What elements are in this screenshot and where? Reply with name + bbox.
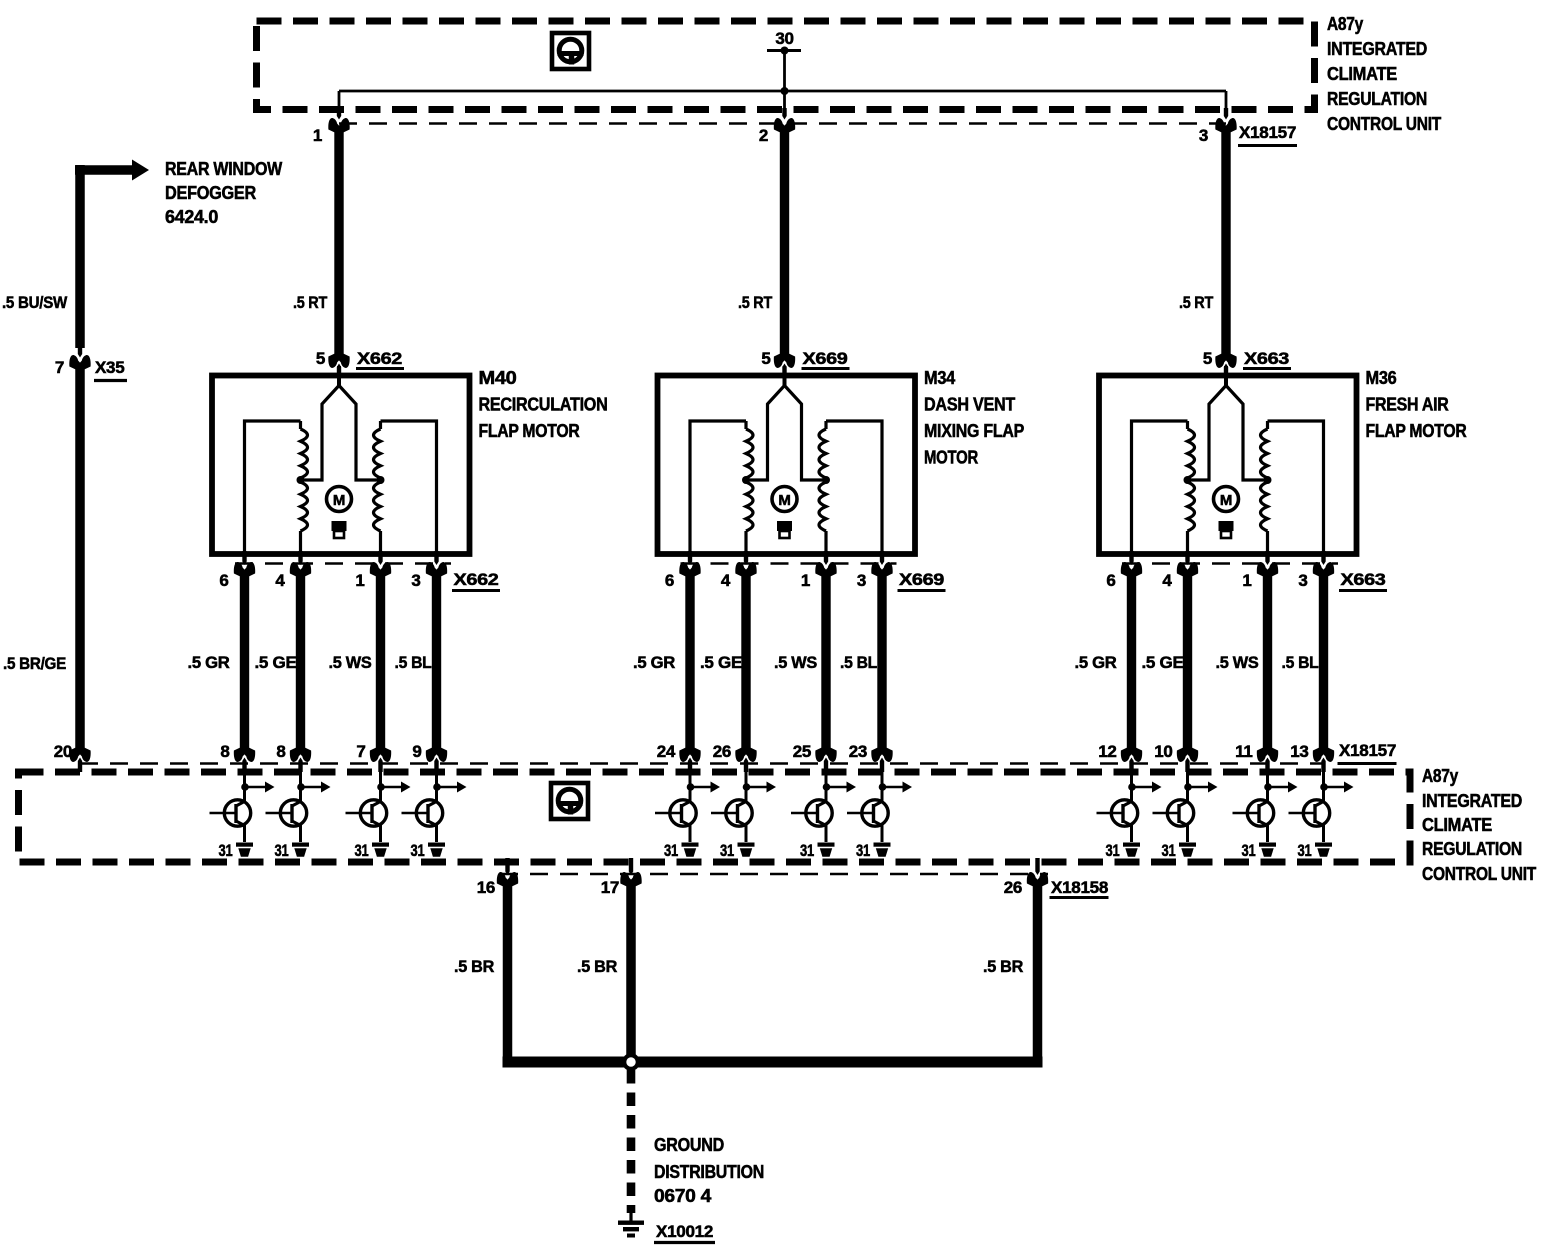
connector X663 pin 6 female claw [1121, 562, 1142, 576]
svg-text:4: 4 [275, 571, 285, 590]
connector X18157 pin 3 male pin [1224, 108, 1228, 120]
svg-text:6: 6 [1106, 571, 1115, 590]
control unit A87y (lower) dashed outline [19, 772, 1411, 862]
svg-text:24: 24 [657, 742, 676, 761]
connector X35 male pin [78, 344, 82, 358]
ground 31 (pin 7) [372, 843, 389, 857]
svg-text:.5 GR: .5 GR [188, 653, 230, 672]
connector control-unit pin 23 male pin [880, 758, 884, 773]
connector X669 pin 5 female claw [774, 354, 795, 368]
svg-text:4: 4 [721, 571, 731, 590]
connector control-unit pin 23 female claw [871, 748, 892, 762]
wire internal drop pin 8 [243, 764, 246, 803]
transistor driver pin 24 [655, 800, 696, 826]
wire internal tent right [339, 386, 381, 481]
svg-text:X18157: X18157 [1239, 123, 1296, 142]
wire .5 WS (X669 pin) [821, 570, 830, 754]
svg-text:M: M [1220, 492, 1232, 509]
svg-text:X662: X662 [454, 570, 499, 589]
wire .5 GR (X663 pin) [1127, 570, 1136, 754]
svg-text:REGULATION: REGULATION [1327, 89, 1427, 109]
svg-text:M: M [778, 492, 790, 509]
svg-text:.5 BL: .5 BL [1282, 653, 1319, 672]
wire .5 GE (X663 pin) [1183, 570, 1192, 754]
svg-text:X18157: X18157 [1339, 741, 1396, 760]
connector X18157 pin 2 female claw [774, 118, 795, 132]
wire internal drop pin 7 [379, 764, 382, 803]
ground 31 (pin 13) [1315, 843, 1332, 857]
wire .5 GE (X662 pin) [296, 570, 305, 754]
svg-text:23: 23 [849, 742, 867, 761]
svg-text:0670 4: 0670 4 [654, 1186, 711, 1206]
svg-text:.5 GE: .5 GE [1142, 653, 1184, 672]
connector X663 pin 1 female claw [1257, 562, 1278, 576]
connector X663 pin 3 female claw [1313, 562, 1334, 576]
svg-text:3: 3 [1298, 571, 1307, 590]
motor symbol M (M34) [772, 487, 797, 512]
svg-text:.5 WS: .5 WS [1216, 653, 1259, 672]
ground 31 (pin 12) [1123, 843, 1140, 857]
arrowhead to rear window defogger [132, 160, 149, 181]
coil winding right lower (M40) [374, 482, 381, 531]
svg-text:M34: M34 [924, 368, 955, 388]
svg-text:31: 31 [1162, 841, 1176, 860]
motor symbol M (M36) [1214, 487, 1239, 512]
svg-text:16: 16 [477, 878, 495, 897]
svg-text:.5 BU/SW: .5 BU/SW [2, 293, 68, 312]
connector control-unit pin 9 male pin [434, 758, 438, 773]
svg-text:CONTROL UNIT: CONTROL UNIT [1422, 864, 1536, 884]
connector X669 pin 6 female claw [679, 562, 700, 576]
wire internal drop pin 9 [435, 764, 438, 803]
junction pin 13 branch [1320, 783, 1328, 791]
svg-text:.5 BR: .5 BR [454, 957, 494, 976]
junction pin 8 branch [241, 783, 249, 791]
transistor driver pin 12 [1097, 800, 1138, 826]
connector control-unit pin 24 female claw [679, 748, 700, 762]
ground 31 (pin 23) [874, 843, 891, 857]
junction pin 24 branch [687, 783, 695, 791]
ground 31 (pin 24) [682, 843, 699, 857]
svg-text:CLIMATE: CLIMATE [1422, 815, 1492, 835]
wire .5 RT [780, 126, 789, 359]
svg-text:A87y: A87y [1422, 766, 1458, 786]
svg-text:A87y: A87y [1327, 14, 1363, 34]
connector X18158 pin 16 female claw [497, 872, 518, 886]
signal branch arrow pin 11 [1268, 786, 1289, 789]
svg-text:CONTROL UNIT: CONTROL UNIT [1327, 114, 1441, 134]
connector control-unit pin 13 male pin [1321, 758, 1325, 773]
transistor driver pin 7 [346, 800, 387, 826]
wire .5 RT [1221, 126, 1230, 359]
svg-text:12: 12 [1098, 742, 1116, 761]
connector control-unit pin 13 female claw [1313, 748, 1334, 762]
svg-text:6424.0: 6424.0 [165, 207, 218, 227]
connector X18158 pin 17 male pin [629, 858, 633, 875]
node junction 30-bus [781, 87, 789, 95]
svg-text:MOTOR: MOTOR [924, 448, 978, 468]
wire internal drop pin 12 [1130, 764, 1133, 803]
svg-text:.5 RT: .5 RT [738, 293, 773, 312]
junction ground bus / distribution (open circle) [624, 1055, 638, 1069]
ground 31 (pin 10) [1179, 843, 1196, 857]
wire .5 WS (X662 pin) [376, 570, 385, 754]
svg-text:17: 17 [601, 878, 619, 897]
svg-text:X18158: X18158 [1051, 878, 1108, 897]
wire bus drop pin1 [338, 91, 341, 111]
svg-text:.5 GR: .5 GR [1075, 653, 1117, 672]
wire .5 BR pin 17 [626, 880, 636, 1062]
transistor driver pin 8 [210, 800, 251, 826]
svg-text:CLIMATE: CLIMATE [1327, 64, 1397, 84]
ground 31 (pin 25) [818, 843, 835, 857]
svg-text:31: 31 [411, 841, 425, 860]
svg-text:9: 9 [412, 742, 421, 761]
wire .5 BR pin 16 [503, 880, 513, 1062]
junction pin 25 branch [823, 783, 831, 791]
svg-text:8: 8 [220, 742, 229, 761]
svg-text:DASH VENT: DASH VENT [924, 395, 1015, 415]
connector row dashed line (lower box top) [80, 762, 1324, 765]
wire .5 GR (X669 pin) [685, 570, 694, 754]
connector control-unit pin 8 female claw [234, 748, 255, 762]
svg-text:X10012: X10012 [656, 1222, 713, 1241]
ground bus wire (horizontal) [503, 1057, 1043, 1068]
motor symbol M (M40) [327, 487, 352, 512]
wire .5 BL (X663 pin) [1319, 570, 1328, 754]
wire .5 BL (X669 pin) [877, 570, 886, 754]
svg-text:M36: M36 [1366, 368, 1397, 388]
coil winding right upper (M40) [379, 421, 382, 429]
svg-text:X663: X663 [1244, 349, 1289, 368]
wire internal tent left [746, 386, 785, 481]
wire .5 BR pin 26 [1033, 880, 1043, 1062]
connector X18157 dashed line [339, 122, 1226, 125]
wire internal tent right [1226, 386, 1268, 481]
connector X663 pin 5 female claw [1215, 354, 1236, 368]
svg-text:26: 26 [1004, 878, 1022, 897]
svg-text:26: 26 [713, 742, 731, 761]
svg-text:2: 2 [759, 126, 768, 145]
signal branch arrow pin 25 [826, 786, 847, 789]
svg-text:31: 31 [1298, 841, 1312, 860]
svg-text:7: 7 [356, 742, 365, 761]
wire internal pin3 branch [1268, 421, 1324, 553]
coil winding left upper (M36) [1186, 421, 1189, 429]
svg-text:.5 GE: .5 GE [700, 653, 742, 672]
junction pin 7 branch [377, 783, 385, 791]
signal branch arrow pin 9 [437, 786, 458, 789]
connector X662 pin 6 female claw [234, 562, 255, 576]
ground 31 (pin 11) [1259, 843, 1276, 857]
connector X669 pin 3 female claw [871, 562, 892, 576]
svg-text:25: 25 [793, 742, 811, 761]
svg-text:13: 13 [1290, 742, 1308, 761]
svg-text:31: 31 [664, 841, 678, 860]
wire .5 WS (X663 pin) [1263, 570, 1272, 754]
svg-text:.5 BR/GE: .5 BR/GE [3, 654, 66, 673]
svg-text:.5 BL: .5 BL [840, 653, 877, 672]
signal branch arrow pin 24 [690, 786, 711, 789]
signal branch arrow pin 13 [1324, 786, 1345, 789]
svg-text:31: 31 [800, 841, 814, 860]
wire .5 BU/SW vertical [75, 165, 85, 348]
signal branch arrow pin 8 [245, 786, 266, 789]
signal branch arrow pin 23 [882, 786, 903, 789]
wire to ground distribution (dashed) [627, 1070, 636, 1213]
junction left coil tap [1184, 476, 1192, 484]
coil winding right upper (M36) [1266, 421, 1269, 429]
wire pin4 lower stub [299, 531, 302, 553]
ground 31 (pin 9) [428, 843, 445, 857]
svg-text:INTEGRATED: INTEGRATED [1327, 39, 1427, 59]
connector X669 pin 4 male pin [744, 551, 748, 565]
svg-text:5: 5 [761, 349, 770, 368]
junction pin 23 branch [879, 783, 887, 791]
connector control-unit pin 26 female claw [735, 748, 756, 762]
svg-text:1: 1 [1242, 571, 1251, 590]
wire internal tent left [1188, 386, 1227, 481]
wire pin4 lower stub [1186, 531, 1189, 553]
connector X669 (bottom) dashed line [681, 562, 897, 565]
coil winding left upper (M34) [744, 421, 747, 429]
svg-text:7: 7 [55, 358, 64, 377]
svg-text:M: M [333, 492, 345, 509]
wire .5 GR (X662 pin) [240, 570, 249, 754]
svg-text:.5 GR: .5 GR [633, 653, 675, 672]
wire .5 BL (X662 pin) [432, 570, 441, 754]
svg-text:FLAP MOTOR: FLAP MOTOR [479, 421, 580, 441]
signal branch arrow pin 8 [301, 786, 322, 789]
motor M40 box outline [212, 376, 470, 555]
connector control-unit pin 7 male pin [378, 758, 382, 773]
connector X663 pin 6 male pin [1129, 551, 1133, 565]
coil winding left lower (M34) [746, 482, 753, 531]
connector control-unit pin 11 male pin [1265, 758, 1269, 773]
connector X662 pin 1 female claw [370, 562, 391, 576]
svg-text:DEFOGGER: DEFOGGER [165, 183, 256, 203]
junction pin 8 branch [297, 783, 305, 791]
connector X662 pin 4 female claw [290, 562, 311, 576]
connector X662 pin 5 male pin [337, 364, 341, 379]
wire internal pin3 branch [381, 421, 437, 553]
svg-text:3: 3 [857, 571, 866, 590]
svg-text:.5 BR: .5 BR [983, 957, 1023, 976]
transistor driver pin 25 [791, 800, 832, 826]
transistor driver pin 8 [266, 800, 307, 826]
position feedback symbol (M34) [777, 521, 792, 531]
connector X663 pin 4 male pin [1185, 551, 1189, 565]
wire internal drop pin 24 [689, 764, 692, 803]
svg-text:X35: X35 [95, 358, 124, 377]
connector X662 pin 5 female claw [328, 354, 349, 368]
wire pin5 internal stub [1224, 366, 1228, 387]
connector control-unit pin 25 female claw [815, 748, 836, 762]
motor M34 box outline [658, 376, 916, 555]
connector control-unit pin 8 male pin [242, 758, 246, 773]
svg-text:31: 31 [1242, 841, 1256, 860]
connector X18157 pin 1 female claw [328, 118, 349, 132]
wire pin1 lower stub [1266, 531, 1269, 553]
connector control-unit pin 12 male pin [1129, 758, 1133, 773]
connector X669 pin 5 male pin [782, 364, 786, 379]
svg-text:RECIRCULATION: RECIRCULATION [479, 395, 608, 415]
svg-text:1: 1 [313, 126, 322, 145]
climate control icon (top box) [552, 33, 589, 69]
connector control-unit pin 11 female claw [1257, 748, 1278, 762]
svg-text:10: 10 [1154, 742, 1172, 761]
connector X662 pin 3 male pin [434, 551, 438, 565]
junction pin 9 branch [433, 783, 441, 791]
junction pin 11 branch [1264, 783, 1272, 791]
wire bus drop pin3 [1225, 91, 1228, 111]
svg-text:11: 11 [1235, 742, 1252, 761]
wire pin4 lower stub [744, 531, 747, 553]
connector X18157 pin 3 female claw [1215, 118, 1236, 132]
signal branch arrow pin 12 [1132, 786, 1153, 789]
connector X18157 pin 2 male pin [782, 108, 786, 120]
connector X669 pin 6 male pin [688, 551, 692, 565]
connector X669 pin 1 female claw [815, 562, 836, 576]
connector X662 pin 3 female claw [426, 562, 447, 576]
connector control-unit pin 25 male pin [824, 758, 828, 773]
connector X663 (bottom) dashed line [1122, 562, 1338, 565]
svg-text:1: 1 [801, 571, 810, 590]
svg-text:X662: X662 [357, 349, 402, 368]
svg-text:30: 30 [775, 29, 793, 48]
coil winding right upper (M34) [824, 421, 827, 429]
svg-text:1: 1 [355, 571, 364, 590]
junction left coil tap [297, 476, 305, 484]
coil winding left lower (M36) [1188, 482, 1195, 531]
junction pin 26 branch [743, 783, 751, 791]
wire internal pin3 branch [826, 421, 882, 553]
svg-text:6: 6 [219, 571, 228, 590]
coil winding right lower (M34) [819, 482, 826, 531]
svg-text:.5 GE: .5 GE [255, 653, 297, 672]
connector control-unit pin 8 male pin [298, 758, 302, 773]
svg-text:31: 31 [355, 841, 369, 860]
connector control-unit pin 7 female claw [370, 748, 391, 762]
connector X18158 dashed line [500, 873, 1048, 876]
wire term30 to bus [783, 51, 786, 92]
wire to rear window defogger (horizontal) [75, 165, 134, 175]
transistor driver pin 11 [1233, 800, 1274, 826]
signal branch arrow pin 26 [746, 786, 767, 789]
ground 31 (pin 26) [738, 843, 755, 857]
svg-text:31: 31 [1106, 841, 1120, 860]
svg-text:3: 3 [411, 571, 420, 590]
position feedback symbol (M36) [1219, 521, 1234, 531]
svg-text:5: 5 [316, 349, 325, 368]
svg-text:.5 WS: .5 WS [329, 653, 372, 672]
ground 31 (pin 8) [236, 843, 253, 857]
junction right coil tap [1264, 476, 1272, 484]
transistor driver pin 10 [1153, 800, 1194, 826]
wire pin1 lower stub [824, 531, 827, 553]
wire internal drop pin 13 [1322, 764, 1325, 803]
junction right coil tap [822, 476, 830, 484]
connector X18158 pin 17 female claw [620, 872, 641, 886]
svg-text:.5 RT: .5 RT [1179, 293, 1214, 312]
connector control-unit pin 12 female claw [1121, 748, 1142, 762]
connector X663 pin 3 male pin [1321, 551, 1325, 565]
connector X662 pin 1 male pin [378, 551, 382, 565]
connector X663 pin 4 female claw [1177, 562, 1198, 576]
connector control-unit pin 24 male pin [688, 758, 692, 773]
wire internal pin6 branch [690, 421, 746, 553]
control unit A87y (top) dashed outline [257, 21, 1315, 110]
connector X18158 pin 26 male pin [1035, 858, 1039, 875]
coil winding right lower (M36) [1261, 482, 1268, 531]
wire .5 BR/GE vertical [75, 364, 85, 754]
wire internal drop pin 8 [299, 764, 302, 803]
svg-text:.5 RT: .5 RT [293, 293, 328, 312]
connector X669 pin 3 male pin [880, 551, 884, 565]
connector X663 pin 1 male pin [1265, 551, 1269, 565]
svg-text:.5 BL: .5 BL [395, 653, 432, 672]
svg-text:31: 31 [720, 841, 734, 860]
wire pin1 lower stub [379, 531, 382, 553]
wire .5 RT [334, 126, 343, 359]
wire pin5 internal stub [783, 366, 787, 387]
connector X662 pin 4 male pin [298, 551, 302, 565]
svg-text:4: 4 [1162, 571, 1172, 590]
internal supply bus wire [339, 90, 1226, 93]
position feedback symbol (M40) [332, 521, 347, 531]
connector X662 pin 6 male pin [242, 551, 246, 565]
svg-text:3: 3 [1199, 126, 1208, 145]
climate control icon (lower box) [551, 783, 588, 819]
motor M36 box outline [1099, 376, 1357, 555]
svg-text:.5 WS: .5 WS [774, 653, 817, 672]
transistor driver pin 23 [847, 800, 888, 826]
connector X18158 pin 16 male pin [505, 858, 509, 875]
svg-text:X663: X663 [1341, 570, 1386, 589]
connector control-unit pin 10 male pin [1185, 758, 1189, 773]
svg-text:31: 31 [275, 841, 289, 860]
connector X662 (bottom) dashed line [235, 562, 451, 565]
svg-text:REAR WINDOW: REAR WINDOW [165, 159, 282, 179]
ground X10012 symbol [629, 1212, 632, 1221]
connector pin 20 male pin from control unit [78, 758, 82, 773]
wire internal drop pin 11 [1266, 764, 1269, 803]
transistor driver pin 13 [1289, 800, 1330, 826]
svg-text:FLAP MOTOR: FLAP MOTOR [1366, 421, 1467, 441]
signal branch arrow pin 10 [1188, 786, 1209, 789]
junction pin 12 branch [1128, 783, 1136, 791]
svg-text:MIXING FLAP: MIXING FLAP [924, 421, 1024, 441]
svg-text:INTEGRATED: INTEGRATED [1422, 791, 1522, 811]
connector control-unit pin 26 male pin [744, 758, 748, 773]
svg-text:.5 BR: .5 BR [577, 957, 617, 976]
wire pin5 internal stub [337, 366, 341, 387]
svg-text:FRESH AIR: FRESH AIR [1366, 395, 1449, 415]
svg-text:X669: X669 [899, 570, 944, 589]
svg-text:31: 31 [219, 841, 233, 860]
signal branch arrow pin 7 [381, 786, 402, 789]
junction left coil tap [742, 476, 750, 484]
wire internal drop pin 23 [881, 764, 884, 803]
connector X18158 pin 26 female claw [1027, 872, 1048, 886]
svg-text:31: 31 [856, 841, 870, 860]
transistor driver pin 26 [711, 800, 752, 826]
connector pin 20 female claw [69, 748, 90, 762]
wire internal drop pin 26 [745, 764, 748, 803]
connector X18157 pin 1 male pin [337, 108, 341, 120]
wire internal tent left [301, 386, 340, 481]
wire internal drop pin 25 [825, 764, 828, 803]
